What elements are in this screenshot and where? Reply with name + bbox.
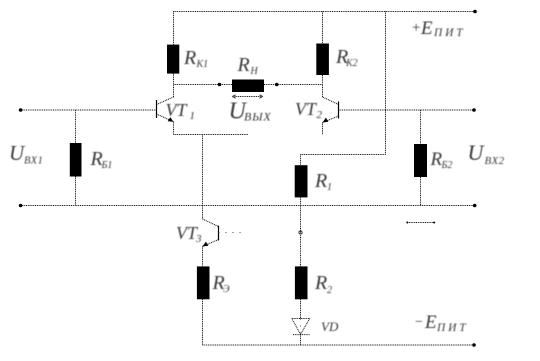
svg-text:3: 3 <box>195 233 202 245</box>
node input2 top terminal <box>472 108 476 112</box>
label Rk2 <box>335 46 358 69</box>
resistor R2 bottom lead <box>300 299 302 318</box>
wire middle rail <box>21 205 475 207</box>
label Uвых <box>229 99 272 125</box>
wire Uout double arrow <box>232 95 262 98</box>
svg-text:+: + <box>411 20 421 36</box>
svg-text:E: E <box>424 312 437 333</box>
svg-text:ВЫХ: ВЫХ <box>244 110 272 124</box>
svg-text:U: U <box>468 140 486 165</box>
label Rb1 <box>90 148 113 171</box>
svg-text:Б1: Б1 <box>101 160 113 171</box>
svg-text:К1: К1 <box>196 59 209 70</box>
node output dot right <box>275 83 279 87</box>
svg-text:2: 2 <box>327 285 332 296</box>
node common left terminal <box>19 204 23 208</box>
svg-text:VT: VT <box>166 100 189 120</box>
node -E terminal dot <box>472 343 476 347</box>
resistor Rb2 leads <box>420 110 422 206</box>
label +Eпит <box>411 18 465 39</box>
wire VT1 base line <box>21 109 157 111</box>
resistor Rk2 leads <box>322 12 324 85</box>
node input1 top terminal <box>19 108 23 112</box>
label VT3 <box>176 223 202 245</box>
wire VT3 collector column <box>202 135 204 220</box>
transistor VT1 <box>157 85 174 135</box>
svg-text:R: R <box>237 54 250 76</box>
label Rk1 <box>183 47 208 70</box>
node base junction ring <box>299 231 302 234</box>
wire VT2 base line to input2 <box>339 109 475 111</box>
label VD <box>321 319 339 334</box>
resistor Rb2 <box>414 144 427 177</box>
wire emitter line <box>174 134 249 136</box>
wire bias horizontal to R1 <box>301 154 386 156</box>
svg-text:К2: К2 <box>345 58 358 69</box>
svg-text:Э: Э <box>223 284 230 295</box>
svg-text:−: − <box>414 315 423 330</box>
label Uвх2 <box>468 140 505 167</box>
node output dot left <box>218 83 222 87</box>
wire bias vertical from +E rail <box>385 12 387 155</box>
label R2 <box>314 272 332 296</box>
svg-text:R: R <box>314 170 327 192</box>
resistor Rb1 leads <box>75 110 77 206</box>
resistor Rk2 <box>316 44 329 76</box>
resistor R1 leads <box>300 155 302 267</box>
resistor Re bottom lead <box>202 299 204 345</box>
wire zero dash mark <box>406 222 435 224</box>
label -Eпит <box>414 312 468 334</box>
wire bottom rail <box>203 344 475 346</box>
label Rb2 <box>430 149 453 171</box>
resistor Rb1 <box>70 143 82 177</box>
svg-text:2: 2 <box>317 109 323 121</box>
svg-text:Б2: Б2 <box>441 160 453 171</box>
svg-text:1: 1 <box>190 110 196 122</box>
svg-text:ПИТ: ПИТ <box>433 27 465 39</box>
svg-text:Н: Н <box>250 66 259 77</box>
svg-text:R: R <box>314 272 327 294</box>
svg-text:E: E <box>420 18 433 39</box>
svg-text:ПИТ: ПИТ <box>436 322 468 334</box>
resistor Rn <box>232 80 264 93</box>
wire collector line right <box>264 84 323 86</box>
svg-text:1: 1 <box>327 182 332 193</box>
svg-text:VT: VT <box>295 99 318 119</box>
resistor R1 <box>295 165 308 197</box>
transistor VT2 <box>323 85 339 136</box>
resistor Rk1 <box>167 45 179 74</box>
label R1 <box>314 170 332 193</box>
node common right terminal <box>473 204 477 208</box>
label Re <box>212 272 231 295</box>
node +E terminal dot <box>473 10 477 14</box>
label VT1 <box>166 100 196 122</box>
wire top rail +E <box>174 11 476 13</box>
svg-text:VD: VD <box>321 319 339 334</box>
label Rn <box>237 54 259 77</box>
svg-text:ВХ1: ВХ1 <box>24 156 43 167</box>
resistor Re <box>197 266 210 299</box>
diode VD <box>292 319 310 346</box>
wire collector line left <box>174 84 233 86</box>
wire VT3 base line <box>219 232 247 234</box>
svg-text:ВХ2: ВХ2 <box>485 155 505 167</box>
resistor Rk1 leads <box>173 12 175 85</box>
label Uвх1 <box>9 141 43 167</box>
resistor R2 <box>295 266 308 299</box>
label VT2 <box>295 99 323 121</box>
svg-text:R: R <box>183 47 196 69</box>
transistor VT3 <box>203 219 219 266</box>
